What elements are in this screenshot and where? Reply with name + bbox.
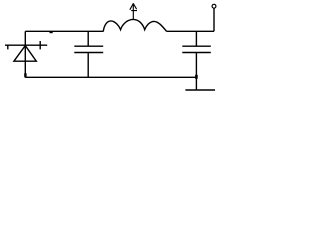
- junction blob at bottom rail right: [195, 75, 198, 79]
- wire top rail right segment: [167, 30, 215, 32]
- wire terminal lead: [213, 8, 215, 31]
- capacitor C1 bottom plate: [74, 52, 103, 54]
- capacitor C2 top plate: [182, 45, 211, 47]
- wire bottom rail: [25, 76, 196, 78]
- inductor L1 adjustment arrow shaft: [132, 3, 134, 20]
- diode D1 triangle: [14, 46, 36, 62]
- inductor L1 arrowhead: [130, 4, 137, 11]
- wire vertical from top rail to diode cathode: [24, 31, 26, 45]
- diode D1 left bar tick: [7, 45, 9, 49]
- wire to ground: [195, 77, 197, 90]
- diode D1 right bar cross tick: [39, 41, 41, 49]
- capacitor C2 top lead: [195, 31, 197, 46]
- terminal circle: [212, 4, 216, 8]
- capacitor C1 top lead: [87, 31, 89, 46]
- capacitor C2 bottom lead: [195, 53, 197, 78]
- ground bar: [185, 89, 215, 91]
- junction blob on top wire: [50, 31, 53, 33]
- wire top rail left segment: [25, 30, 103, 32]
- junction blob at bottom rail left: [24, 73, 26, 77]
- wire diode anode to bottom rail: [24, 46, 26, 78]
- diode D1 cathode bar: [5, 44, 47, 46]
- capacitor C2 bottom plate: [182, 52, 211, 54]
- capacitor C1 bottom lead: [87, 53, 89, 78]
- inductor L1 winding: [103, 19, 166, 31]
- capacitor C1 top plate: [74, 45, 103, 47]
